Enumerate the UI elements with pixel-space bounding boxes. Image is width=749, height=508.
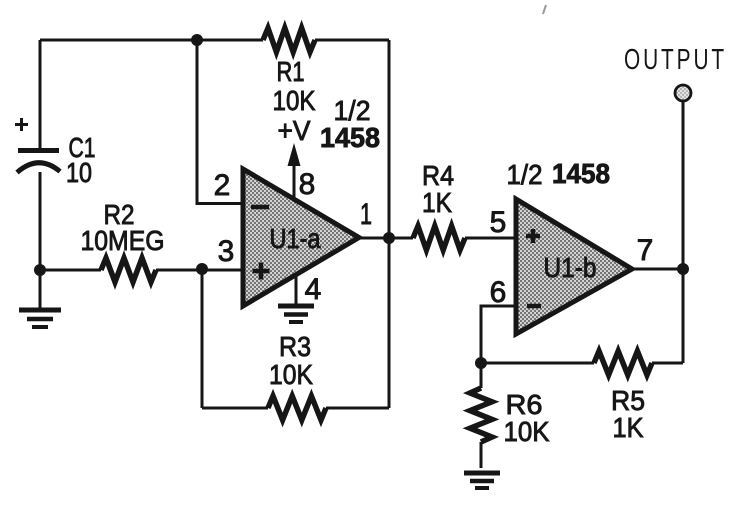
svg-text:10K: 10K [273, 85, 316, 116]
svg-text:1K: 1K [422, 187, 452, 218]
svg-text:5: 5 [490, 206, 507, 239]
svg-text:R3: R3 [279, 331, 311, 362]
svg-text:10K: 10K [504, 416, 550, 447]
svg-text:10MEG: 10MEG [81, 225, 165, 256]
svg-text:1/2: 1/2 [507, 159, 543, 190]
svg-text:1K: 1K [613, 412, 644, 443]
svg-text:7: 7 [637, 234, 654, 267]
svg-text:U1-a: U1-a [270, 223, 321, 254]
svg-text:R1: R1 [277, 56, 305, 87]
svg-text:2: 2 [214, 169, 231, 202]
svg-text:U1-b: U1-b [544, 252, 597, 283]
svg-text:6: 6 [490, 276, 507, 309]
svg-text:1458: 1458 [320, 122, 380, 153]
svg-text:1458: 1458 [552, 158, 610, 189]
svg-text:4: 4 [305, 273, 322, 306]
svg-text:3: 3 [218, 235, 235, 268]
svg-text:10K: 10K [269, 359, 313, 390]
svg-text:10: 10 [66, 157, 92, 188]
svg-text:+V: +V [278, 115, 311, 146]
svg-text:OUTPUT: OUTPUT [624, 44, 727, 76]
svg-text:8: 8 [299, 168, 316, 201]
svg-text:1: 1 [360, 198, 372, 231]
